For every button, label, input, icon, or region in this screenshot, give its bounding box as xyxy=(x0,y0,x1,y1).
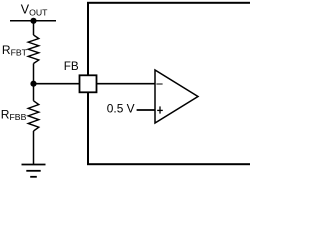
svg-text:RFBT: RFBT xyxy=(2,43,28,57)
svg-text:0.5 V: 0.5 V xyxy=(107,102,135,116)
svg-text:FB: FB xyxy=(64,60,79,73)
svg-text:VOUT: VOUT xyxy=(21,3,48,18)
svg-text:RFBB: RFBB xyxy=(1,108,27,122)
